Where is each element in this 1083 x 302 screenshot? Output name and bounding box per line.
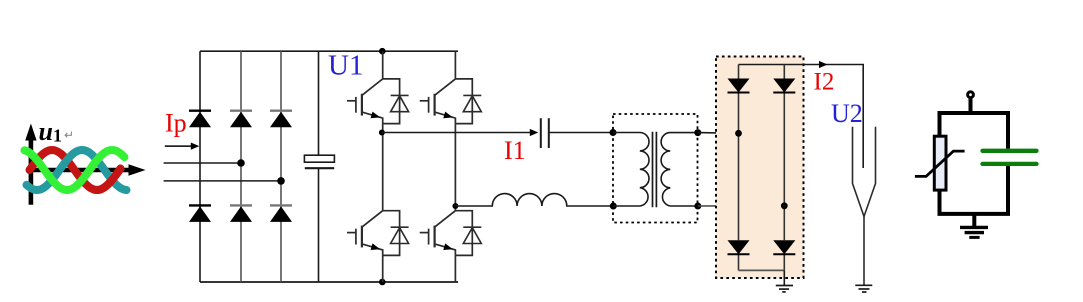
node: input2-leg2 — [237, 159, 245, 167]
wire: phase input 2 — [164, 162, 241, 164]
node: T1 primary bottom — [610, 203, 617, 210]
diode of Q3 — [391, 227, 409, 243]
varistor RV1 — [934, 136, 946, 190]
wire: rectifier right leg — [783, 65, 785, 271]
wire: H-bridge left leg — [382, 51, 384, 282]
snubber loop wire — [940, 113, 1009, 214]
ground G1 — [776, 270, 793, 292]
T1 core — [653, 132, 657, 207]
node: T1 secondary top — [694, 129, 701, 136]
phase wave red — [30, 150, 121, 190]
emitter arrow Q1 — [371, 112, 381, 119]
node: left leg midpoint — [379, 130, 385, 136]
output rectifier dotted box — [716, 57, 804, 279]
transistor Q4 — [420, 211, 473, 256]
emitter arrow Q3 — [371, 243, 381, 250]
transformer T1 dotted box — [613, 114, 698, 223]
T1 primary winding — [613, 133, 649, 206]
diode D10 — [773, 240, 795, 254]
node: top rail / left leg — [379, 48, 386, 55]
wire: bridge leg 3 — [280, 51, 282, 282]
wire: rectifier top rail and output — [739, 65, 864, 169]
wire: HF output top — [382, 132, 531, 134]
node: rectifier in+ — [735, 130, 742, 137]
ground G2 — [855, 285, 872, 292]
node: right leg midpoint — [452, 203, 458, 209]
wire: bridge leg 1 — [199, 51, 201, 282]
wire: H-bridge right leg — [454, 51, 456, 282]
ground G3 — [960, 214, 988, 238]
svg-text:I1: I1 — [504, 136, 526, 165]
capacitor C3 — [983, 151, 1037, 164]
wire: T1 to rectifier bottom — [698, 205, 785, 207]
wire: rectifier left leg — [738, 65, 740, 271]
diode D7 — [728, 79, 750, 93]
node: T1 secondary bottom — [694, 203, 701, 210]
node: input3-leg3 — [277, 177, 285, 185]
capacitor C2 (series) — [541, 118, 549, 148]
svg-text:↵: ↵ — [64, 128, 74, 142]
svg-text:U1: U1 — [328, 50, 363, 82]
electrode / tube U2 — [853, 127, 876, 285]
node: T1 primary top — [610, 129, 617, 136]
phase wave red again (overlap) — [95, 169, 121, 190]
wire + inductor L1 — [455, 194, 613, 206]
diode D6 — [270, 204, 292, 206]
diode of Q4 — [463, 227, 481, 243]
diode of Q2 — [463, 95, 481, 111]
svg-text:u1: u1 — [39, 117, 62, 146]
node: rectifier in- — [781, 202, 788, 209]
phase wave green — [25, 150, 125, 190]
emitter arrow Q2 — [443, 112, 453, 119]
diode D3 — [270, 109, 292, 111]
diode D2 — [230, 109, 252, 111]
svg-text:U2: U2 — [831, 99, 863, 128]
phase wave teal — [27, 150, 127, 190]
three-phase source icon: axes — [25, 124, 145, 205]
svg-text:Ip: Ip — [165, 109, 187, 138]
wire: T1 to rectifier top — [698, 132, 739, 135]
terminal — [968, 92, 974, 98]
diode D9 — [728, 240, 750, 254]
wire: bridge right side — [318, 51, 320, 155]
transistor Q3 — [347, 211, 400, 256]
wire: cap to transformer — [549, 132, 613, 134]
diode of Q1 — [391, 95, 409, 111]
current arrow I2 — [819, 61, 828, 68]
diode D1 — [189, 109, 211, 111]
wire: bridge leg 2 — [240, 51, 242, 282]
svg-text:I2: I2 — [814, 69, 835, 96]
diode D8 — [773, 79, 795, 93]
transistor Q1 — [347, 79, 400, 124]
emitter arrow Q4 — [443, 243, 453, 250]
diode D5 — [230, 204, 252, 206]
diode D4 — [189, 204, 211, 206]
wire: DC+ top rail — [200, 50, 458, 52]
wire: phase input 3 — [164, 180, 281, 182]
current arrow I1 — [530, 129, 539, 136]
wire: rectifier bottom rail — [739, 269, 785, 271]
T1 secondary winding — [661, 133, 698, 206]
node: bottom rail / left leg — [379, 279, 386, 286]
transistor Q2 — [420, 79, 473, 124]
wire: DC- bottom rail — [200, 281, 458, 283]
capacitor C1 (DC link) — [304, 155, 334, 162]
wire: phase input 1 with arrow — [165, 145, 193, 147]
